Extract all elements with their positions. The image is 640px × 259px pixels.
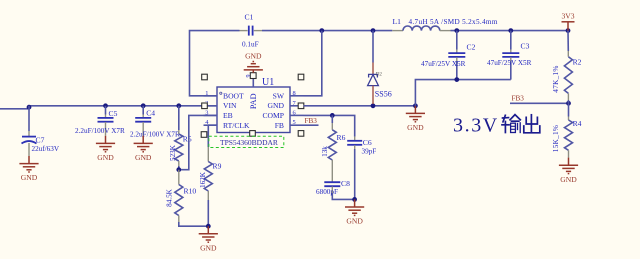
node junction R5 [176,103,181,108]
svg-text:523K: 523K [169,144,177,161]
node junction C2 bottom [454,77,459,82]
ground C6/C8 [345,199,364,215]
svg-text:5: 5 [293,119,296,126]
node selection handle mid-left [202,103,208,109]
ground C7 [19,156,38,172]
node junction 3V3 [566,28,571,33]
svg-text:47uF/25V X5R: 47uF/25V X5R [421,60,466,68]
svg-text:C5: C5 [109,109,118,118]
node junction R2/R4 [566,101,571,106]
svg-text:GND: GND [268,101,285,110]
svg-text:2.2uF/100V X7R: 2.2uF/100V X7R [75,127,125,135]
wire R5 drop [178,106,180,130]
wire GND pin7 rail [304,105,416,107]
resistor R6 [321,115,345,181]
wire R9 bottom [207,200,209,226]
svg-text:GND: GND [560,175,577,184]
U1 pin 9 lead [252,79,254,88]
capacitor C5 [75,109,125,136]
svg-text:3V3: 3V3 [561,12,574,21]
node chinese char shu (output) [502,115,520,133]
svg-text:R10: R10 [184,187,197,196]
ground power [406,106,425,122]
inductor L1 [392,17,498,31]
svg-text:1: 1 [205,90,208,97]
svg-text:C3: C3 [521,42,530,51]
svg-text:R5: R5 [183,135,192,144]
svg-text:U1: U1 [262,77,274,88]
resistor R5 [169,130,192,166]
node junction D2 anode [371,103,376,108]
resistor R9 [199,147,222,200]
svg-text:SS56: SS56 [375,90,392,99]
svg-text:R9: R9 [213,162,222,171]
U1 pin 7 [290,105,304,107]
svg-text:C7: C7 [36,136,45,145]
node selection handle top-left [202,74,208,80]
svg-text:47K_1%: 47K_1% [552,65,560,92]
svg-text:PAD: PAD [249,93,258,109]
svg-text:C6: C6 [363,138,372,147]
node text 3.3V output [453,115,499,137]
node selection handle bottom-left [201,132,207,138]
U1 value label TPS54360BDDAR [209,136,284,147]
wire top rail C1 to SW/L1 [262,30,392,32]
svg-text:COMP: COMP [262,111,284,120]
resistor R4 [552,103,582,157]
svg-text:13k: 13k [321,146,329,157]
svg-text:GND: GND [200,243,217,252]
svg-text:FB3: FB3 [305,117,318,125]
capacitor C6 [347,137,376,156]
svg-text:D2: D2 [376,73,383,78]
svg-text:3.3V: 3.3V [453,115,499,137]
U1 pin names [223,91,285,129]
U1 pin 8 [290,95,304,97]
node junction SW riser [319,28,324,33]
svg-text:2.2uF/100V X7R: 2.2uF/100V X7R [130,131,180,139]
resistor R10 [165,170,196,222]
svg-text:GND: GND [97,153,114,162]
wire input rail to VIN pin2 [29,105,217,107]
svg-text:RT/CLK: RT/CLK [223,121,250,130]
svg-text:FB3: FB3 [512,95,525,103]
wire R5 bottom to junction [178,166,180,170]
ground C4 [134,136,153,152]
wire C7 drop [28,106,30,131]
capacitor C2 [421,31,476,80]
svg-text:39pF: 39pF [362,148,377,156]
ground R4 [559,158,578,174]
svg-text:162K: 162K [199,171,207,188]
U1 pin 6 [290,114,304,116]
svg-text:C8: C8 [341,179,350,188]
svg-text:6800pF: 6800pF [316,188,338,196]
svg-text:GND: GND [346,217,363,226]
ground C5 [96,136,115,152]
wire SW pin8 riser [304,31,322,96]
capacitor C4 [130,109,180,139]
svg-text:GND: GND [245,52,262,61]
node junction R9/R10 gnd [206,224,211,229]
svg-text:0.1uF: 0.1uF [242,41,259,49]
svg-text:VIN: VIN [223,101,237,110]
svg-text:L1: L1 [393,17,402,26]
node junction gnd drop [413,103,418,108]
wire EB pin3 to R5/R10 junction [181,115,217,169]
svg-text:SW: SW [273,91,285,100]
svg-text:4.7uH 5A /SMD 5.2x5.4mm: 4.7uH 5A /SMD 5.2x5.4mm [409,18,498,26]
node selection handle bottom-mid [250,131,256,137]
ground R9/R10 [199,226,218,242]
op-amp U1 TPS54360 body [217,77,290,133]
node junction input stub [27,105,32,110]
capacitor C3 [487,31,532,80]
U1 pin 2 [204,105,218,107]
node chinese char chu (output) [524,115,540,133]
svg-text:R2: R2 [573,58,582,67]
node junction C2 [454,28,459,33]
ground above U1 pin9 (inverted) [244,62,263,73]
svg-text:8: 8 [293,90,296,97]
node junction C5 [103,103,108,108]
svg-text:TPS54360BDDAR: TPS54360BDDAR [220,138,278,147]
resistor R2 [552,31,582,104]
node junction R6 top [330,113,335,118]
U1 pin 9 pad [250,73,256,79]
U1 pin 4 [204,124,218,126]
wire R10 bottom to GND junction [179,222,209,226]
wire output rail [451,30,569,32]
U1 pin 1 [204,95,218,97]
wire FB3 net to divider [510,102,569,104]
svg-text:6: 6 [293,109,296,116]
svg-text:9: 9 [246,75,252,78]
wire RT/CLK to R9 [208,125,217,147]
node junction D2 top [371,28,376,33]
wire C2/C3 ground link [415,80,510,106]
U1 pin 3 [204,114,218,116]
svg-text:EB: EB [223,111,233,120]
node selection handle top-right [298,74,304,80]
node junction R5/R10/EB [176,167,181,172]
wire BOOT pin1 loop up [190,31,240,96]
svg-text:GND: GND [21,173,38,182]
svg-text:R4: R4 [573,119,582,128]
node junction C6/C8 gnd [352,197,357,202]
svg-text:C1: C1 [245,13,254,22]
node junction C3 [508,28,513,33]
U1 pin 5 [290,124,304,126]
diode D2 SS56 [368,31,392,104]
svg-text:R6: R6 [337,133,346,142]
svg-text:84.5K: 84.5K [165,188,173,207]
wire input stub from left edge [0,106,29,109]
capacitor C8 [316,179,350,196]
svg-text:GND: GND [135,153,152,162]
wire C8 bottom to gnd junction [332,193,354,199]
power 3V3 [561,12,574,31]
wire C5 drop [105,106,107,115]
capacitor C7 [22,131,60,156]
node junction C4 [141,103,146,108]
wire FB pin5 stub [304,124,319,126]
node selection handle mid-right [298,103,304,109]
svg-text:15K_1%: 15K_1% [552,125,560,152]
svg-text:GND: GND [407,123,424,132]
node selection handle bottom-right [298,131,304,137]
svg-text:47uF/25V X5R: 47uF/25V X5R [487,59,532,67]
svg-text:C4: C4 [146,109,155,118]
svg-text:BOOT: BOOT [223,91,244,100]
wire C4 drop [142,106,144,115]
capacitor C1 [240,13,263,49]
svg-text:C2: C2 [467,43,476,52]
wire COMP pin6 [304,115,355,136]
svg-text:22uf/63V: 22uf/63V [32,145,60,153]
wire C6 bottom [354,149,356,199]
svg-text:FB: FB [275,121,284,130]
